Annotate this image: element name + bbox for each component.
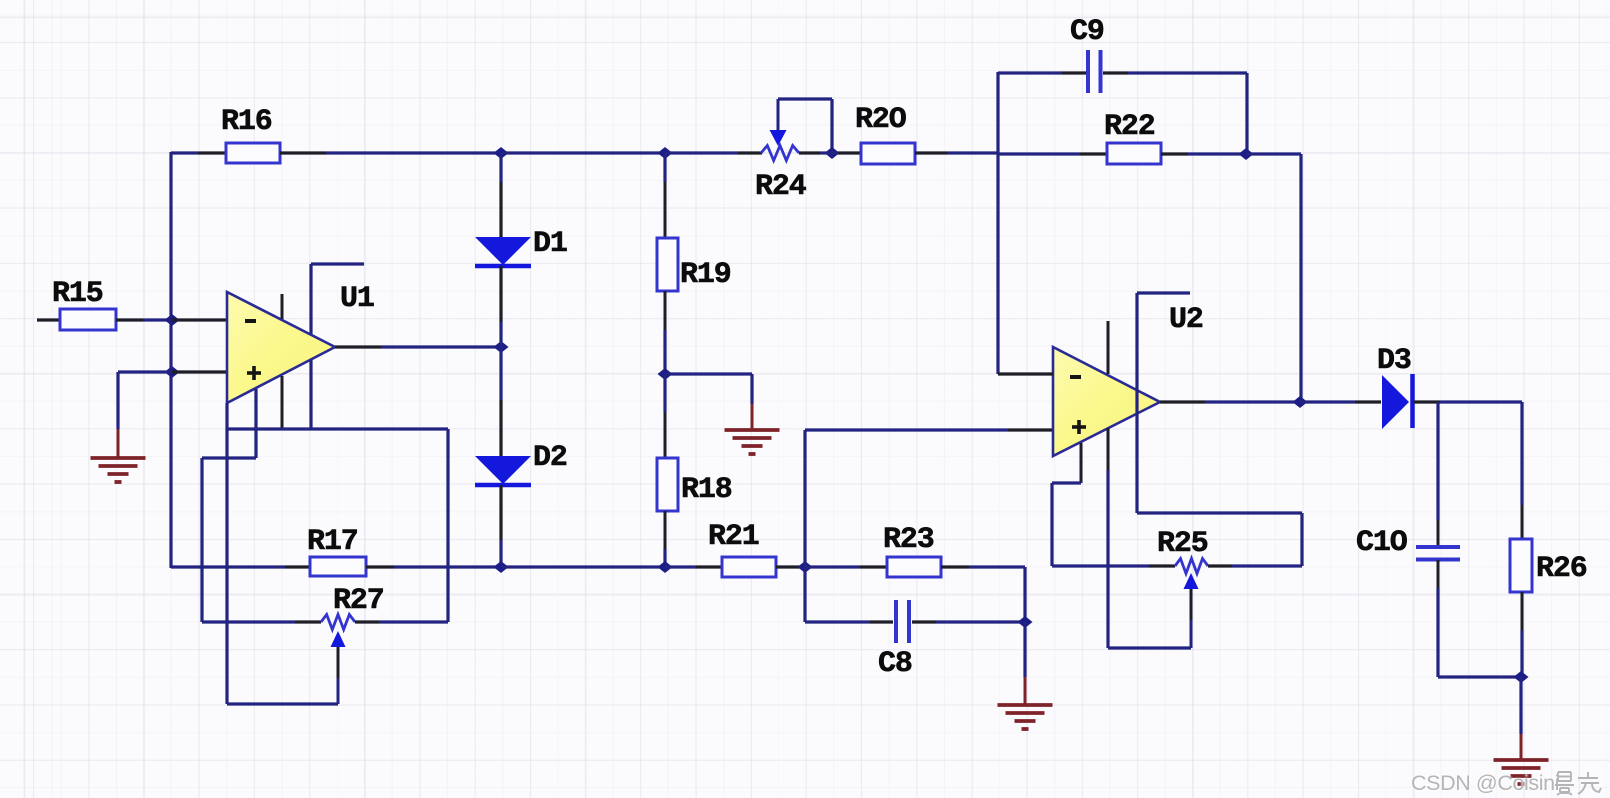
wire feedback vertical to U2 output <box>1299 154 1302 402</box>
wire R16 row left lead <box>171 151 227 154</box>
wire D1 anode from top bus <box>499 153 502 238</box>
wire output node to D2 anode <box>499 347 502 456</box>
node junction U1 output at diode column <box>494 341 509 353</box>
wire R23 right lead to corner <box>941 567 1025 622</box>
wire R26 top lead <box>1520 402 1523 539</box>
U2 bottom power pin run <box>1108 428 1191 648</box>
capacitor C8 <box>878 600 912 681</box>
wire C9 top row right <box>1103 73 1247 154</box>
svg-text:U2: U2 <box>1169 303 1203 337</box>
svg-text:R2O: R2O <box>855 103 906 137</box>
ground symbol bottom right <box>1494 760 1549 784</box>
capacitor C9 <box>1070 15 1104 93</box>
node junction U1 inverting input <box>165 314 180 326</box>
node junction top at R19 column <box>658 147 673 159</box>
wire R15 to inverting node <box>116 318 172 321</box>
U2 top power pin <box>1107 321 1110 374</box>
capacitor C10 <box>1356 526 1460 560</box>
wire R18 bottom lead <box>664 511 667 567</box>
svg-text:R15: R15 <box>52 277 103 311</box>
diode D3 <box>1377 344 1413 429</box>
node junction R24 right <box>825 147 840 159</box>
wire U1 power drop to R27 wiper loop <box>225 403 228 704</box>
wire R22 node to feedback corner <box>1246 152 1301 155</box>
wire node to bottom-right ground <box>1519 677 1522 759</box>
svg-text:R27: R27 <box>333 584 384 618</box>
wire C9-R22 left vertical to U2 inverting input <box>996 72 999 374</box>
wire C10 branch vertical <box>1436 402 1439 546</box>
wire output node to D3 <box>1300 400 1381 403</box>
potentiometer R25 wiper arrow <box>1184 573 1199 648</box>
wire R25 row right lead <box>1208 564 1302 567</box>
wire U2 L through to R25 right loop <box>1137 390 1302 566</box>
wire mid ground branch <box>665 374 752 429</box>
wire C8 row left lead <box>805 620 893 623</box>
wire R19 top lead <box>663 153 666 238</box>
U1 bottom power pin <box>281 376 284 429</box>
wire U1 output to diode column <box>381 345 501 348</box>
svg-text:C8: C8 <box>878 647 912 681</box>
U1 minus symbol <box>245 319 256 323</box>
wire bottom row D2 to R18 node <box>501 565 665 568</box>
potentiometer R27 wiper arrow <box>331 631 346 704</box>
svg-text:R18: R18 <box>681 473 732 507</box>
svg-text:U1: U1 <box>340 282 374 316</box>
wire top bus R19 to R24 <box>665 151 762 154</box>
wire U2 output pin <box>1160 400 1205 403</box>
potentiometer R27 zigzag <box>321 584 384 630</box>
wire R19 bottom lead <box>664 291 667 374</box>
node junction C8/R23 right <box>1018 616 1033 628</box>
wire R26 bottom lead <box>1521 592 1524 677</box>
wire U1 non-inverting input pin <box>172 370 227 373</box>
wire C10 bottom to R26 node <box>1438 560 1521 677</box>
wire R17 to D2 node <box>366 565 501 568</box>
wire non-inverting to ground branch <box>118 370 172 373</box>
wire U2 plus branch from R23 node <box>803 430 806 622</box>
ground symbol middle <box>725 430 780 454</box>
wire U2 output to node <box>1205 400 1300 403</box>
potentiometer R24 zigzag <box>755 146 807 205</box>
wire R16 row to D1 junction <box>280 151 501 154</box>
svg-text:R23: R23 <box>883 523 934 557</box>
wire R18 top lead <box>663 374 666 458</box>
ground symbol bottom middle <box>998 705 1053 729</box>
U2 plus symbol <box>1072 420 1086 434</box>
potentiometer R25 zigzag <box>1157 527 1208 574</box>
svg-text:D3: D3 <box>1377 344 1411 378</box>
wire to U2 non-inverting input <box>805 428 1053 431</box>
potentiometer R24 wiper arrow <box>770 99 787 146</box>
wire R24 to R20 <box>799 151 861 154</box>
svg-text:R16: R16 <box>221 105 272 139</box>
wire R18 node to R21 <box>665 565 722 568</box>
resistor R26 <box>1510 539 1587 592</box>
wire C8 row right lead <box>912 620 1025 623</box>
U2 minus symbol <box>1070 375 1081 379</box>
U2 lower-left pin to R25 left <box>1052 443 1081 566</box>
wire D3 cathode lead <box>1414 400 1522 403</box>
wire R23 row left lead <box>805 565 887 568</box>
svg-text:C1O: C1O <box>1356 526 1407 560</box>
wire R24 wiper bypass loop <box>778 99 832 153</box>
wire R21 to R23 node <box>776 565 805 568</box>
wire R17 row from left vertical <box>171 565 310 568</box>
wire U1 output pin <box>335 345 381 348</box>
svg-text:R26: R26 <box>1536 552 1587 586</box>
wire U2 top L-stub <box>1137 293 1190 390</box>
svg-text:R25: R25 <box>1157 527 1208 561</box>
wire D1 cathode to output node <box>499 266 502 347</box>
wire U1 lower rail <box>227 427 448 430</box>
svg-text:C9: C9 <box>1070 15 1104 49</box>
wire R25 row left lead <box>1052 564 1175 567</box>
wire ground stem left <box>116 372 119 457</box>
resistor R22 <box>1104 110 1161 164</box>
node junction R21/R23/C8 branch <box>798 561 813 573</box>
op-amp U2 <box>1053 303 1203 456</box>
diode D1 <box>475 227 567 266</box>
wire R22 to C9 junction <box>1161 152 1246 155</box>
wire U1 below vertical from L <box>309 360 312 429</box>
wire U2 inverting input pin <box>998 372 1053 375</box>
wire R15 input lead <box>37 318 60 321</box>
resistor R15 <box>52 277 116 330</box>
resistor R20 <box>855 103 915 164</box>
resistor R23 <box>883 523 941 577</box>
svg-text:R17: R17 <box>307 525 358 559</box>
svg-text:R21: R21 <box>708 520 759 554</box>
wire U1 inverting input pin <box>172 318 227 321</box>
svg-text:CSDN @Coisini_: CSDN @Coisini_ <box>1411 771 1572 795</box>
wire R16 feedback top-left vertical <box>169 152 172 568</box>
U1 top power pin <box>281 294 284 319</box>
node junction R19/R18/ground <box>658 368 673 380</box>
resistor R18 <box>657 458 732 511</box>
node junction bottom row at R18 column <box>658 561 673 573</box>
wire R27 row right lead <box>355 620 448 623</box>
wire jog to R27 left <box>202 389 256 622</box>
wire R22 row left lead <box>998 152 1107 155</box>
U1 plus symbol <box>247 366 261 380</box>
wire D2 cathode to bottom row <box>499 485 502 567</box>
wire R20 to C9/R22 left vertical <box>915 151 998 154</box>
svg-text:R19: R19 <box>680 258 731 292</box>
diode D2 <box>475 441 567 485</box>
wire R27 row left lead <box>202 620 321 623</box>
resistor R21 <box>708 520 776 577</box>
resistor R19 <box>657 238 731 292</box>
node junction U2 output <box>1293 396 1308 408</box>
op-amp U1 <box>227 282 374 403</box>
node junction bottom row at diode column <box>494 561 509 573</box>
wire C9 top row left <box>998 71 1086 74</box>
resistor R17 <box>307 525 366 576</box>
wire R27 wiper bottom run <box>227 702 338 705</box>
node junction C9/R22 right <box>1239 148 1254 160</box>
wire right side of R27 loop up to lower rail <box>446 429 449 622</box>
svg-text:R22: R22 <box>1104 110 1155 144</box>
resistor R16 <box>221 105 280 163</box>
svg-text:R24: R24 <box>755 170 807 204</box>
node junction U1 non-inverting input <box>165 366 180 378</box>
svg-text:D2: D2 <box>533 441 567 475</box>
node junction top at D1 column <box>494 147 509 159</box>
wire top bus D1 to R19 column <box>501 151 665 154</box>
node junction C10/R26 <box>1514 671 1529 683</box>
wire C8 node to ground <box>1023 622 1026 704</box>
wire U1 top L-stub <box>311 264 364 334</box>
svg-text:D1: D1 <box>533 227 567 261</box>
ground symbol left <box>91 458 146 482</box>
watermark CSDN <box>1411 771 1601 795</box>
